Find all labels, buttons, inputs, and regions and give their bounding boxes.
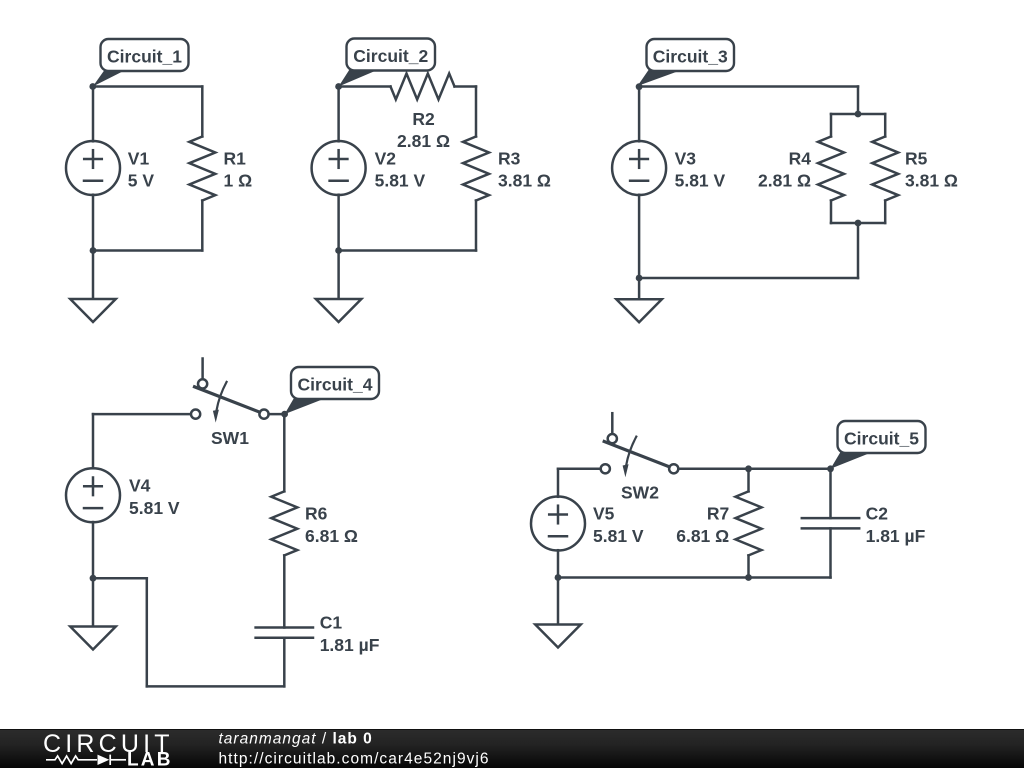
svg-text:2.81 Ω: 2.81 Ω <box>397 131 450 151</box>
svg-text:V1: V1 <box>128 149 150 169</box>
svg-text:R7: R7 <box>707 504 729 524</box>
svg-text:SW1: SW1 <box>211 428 249 448</box>
svg-text:R5: R5 <box>905 149 928 169</box>
svg-text:taranmangat / lab 0: taranmangat / lab 0 <box>219 730 373 747</box>
svg-text:R1: R1 <box>224 149 247 169</box>
svg-text:R4: R4 <box>789 149 812 169</box>
svg-text:5.81 V: 5.81 V <box>675 171 726 191</box>
svg-text:Circuit_1: Circuit_1 <box>107 47 182 67</box>
svg-text:V2: V2 <box>375 149 397 169</box>
svg-text:6.81 Ω: 6.81 Ω <box>676 526 729 546</box>
svg-text:R3: R3 <box>498 149 521 169</box>
svg-text:LAB: LAB <box>127 749 173 768</box>
svg-text:C1: C1 <box>320 613 343 633</box>
svg-text:R6: R6 <box>305 503 328 523</box>
svg-text:5 V: 5 V <box>128 171 155 191</box>
svg-text:V3: V3 <box>675 149 697 169</box>
svg-text:5.81 V: 5.81 V <box>375 171 426 191</box>
svg-text:3.81 Ω: 3.81 Ω <box>905 171 958 191</box>
svg-text:Circuit_2: Circuit_2 <box>353 46 428 66</box>
svg-text:Circuit_4: Circuit_4 <box>298 375 373 395</box>
svg-text:1.81 µF: 1.81 µF <box>866 526 926 546</box>
svg-text:5.81 V: 5.81 V <box>129 498 180 518</box>
svg-text:http://circuitlab.com/car4e52n: http://circuitlab.com/car4e52nj9vj6 <box>219 750 490 767</box>
svg-text:SW2: SW2 <box>621 483 659 503</box>
svg-text:5.81 V: 5.81 V <box>593 526 644 546</box>
svg-text:C2: C2 <box>866 503 889 523</box>
svg-text:Circuit_5: Circuit_5 <box>844 429 919 449</box>
svg-text:V5: V5 <box>593 504 615 524</box>
svg-text:1.81 µF: 1.81 µF <box>320 635 380 655</box>
svg-text:V4: V4 <box>129 475 151 495</box>
svg-text:6.81 Ω: 6.81 Ω <box>305 526 358 546</box>
svg-text:3.81 Ω: 3.81 Ω <box>498 171 551 191</box>
svg-text:2.81 Ω: 2.81 Ω <box>758 171 811 191</box>
svg-text:1 Ω: 1 Ω <box>224 171 253 191</box>
svg-text:Circuit_3: Circuit_3 <box>653 47 728 67</box>
svg-text:R2: R2 <box>412 109 435 129</box>
